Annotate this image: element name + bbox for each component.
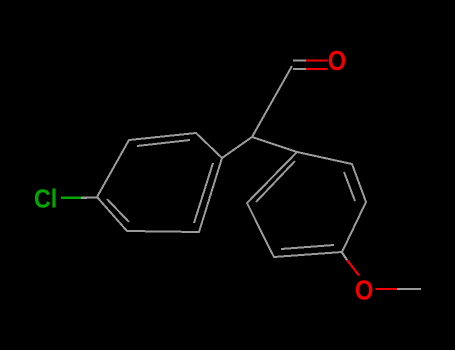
carbonyl C=O red halves (306, 60, 328, 69)
bond Cl - ring1 (green half) (61, 197, 81, 199)
carbonyl C=O gray halves (293, 60, 306, 69)
ring1 inner double bond (right) (194, 163, 213, 223)
ring2 inner double bond (bottom) (281, 245, 334, 249)
bond CH - CHO (252, 66, 292, 137)
ring2 inner double bond (upper-right) (344, 172, 355, 201)
ring1 inner double bond (bottom-left) (107, 199, 129, 222)
central CH bonds (222, 66, 297, 158)
bond CH - ring1 (222, 137, 252, 158)
svg-text:Cl: Cl (34, 185, 57, 214)
svg-text:O: O (355, 273, 374, 305)
benzene ring 2 (4-methoxyphenyl) (247, 152, 366, 257)
bond ring2 - OMe O (red half) (347, 260, 359, 276)
ring1 inner double bond (top) (137, 140, 190, 146)
bond Cl - ring1 (gray half) (81, 196, 97, 199)
bond O - CH3 (gray half) (397, 288, 421, 290)
bond CH - ring2 (252, 137, 297, 152)
svg-text:O: O (328, 44, 347, 76)
benzene ring 1 (4-chlorophenyl) (97, 133, 222, 232)
bond O - CH3 (red half) (376, 288, 398, 290)
bond ring2 - OMe O (gray half) (342, 253, 347, 261)
ring2 inner double bond (upper-left) (256, 161, 295, 202)
